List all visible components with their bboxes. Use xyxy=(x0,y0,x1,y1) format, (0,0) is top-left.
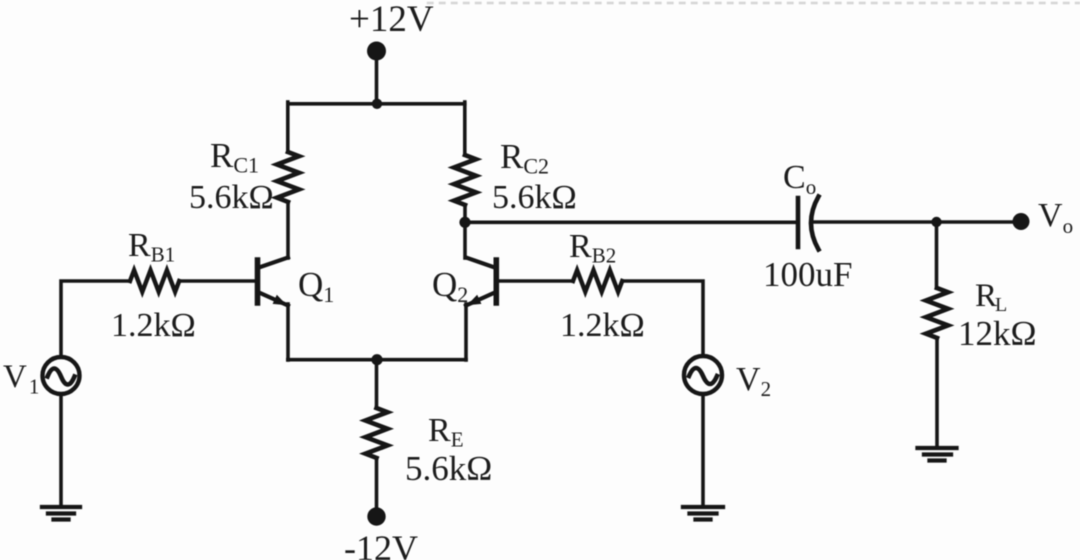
wire output node to Q2 collector xyxy=(463,222,467,258)
wire V1 riser to base xyxy=(61,281,130,357)
svg-text:RE: RE xyxy=(428,412,464,452)
svg-text:-12V: -12V xyxy=(344,528,418,560)
wire RB1 to Q1 base xyxy=(179,279,255,283)
wire V2 to ground xyxy=(701,394,705,507)
svg-text:RB1: RB1 xyxy=(128,227,175,267)
svg-text:V2: V2 xyxy=(736,361,771,401)
svg-text:RL: RL xyxy=(975,278,1007,316)
svg-text:V1: V1 xyxy=(3,359,39,399)
scan artifact dashed line xyxy=(428,2,1080,4)
capacitor Co xyxy=(798,197,819,250)
node +12V terminal dot xyxy=(367,42,386,61)
svg-text:Co: Co xyxy=(783,159,816,199)
wire +12V to top rail xyxy=(375,51,379,104)
svg-text:Vo: Vo xyxy=(1038,197,1073,238)
svg-text:Q1: Q1 xyxy=(298,265,334,307)
ground V2 xyxy=(683,507,723,520)
wire Q2 base to RB2 xyxy=(497,279,573,283)
svg-text:Q2: Q2 xyxy=(432,265,468,307)
transistor Q1 xyxy=(258,258,289,361)
source V2 xyxy=(684,356,722,394)
wire RC1 to Q1 collector xyxy=(286,202,290,258)
svg-text:100uF: 100uF xyxy=(763,255,852,294)
wire emitter to RE xyxy=(375,360,379,408)
svg-text:12kΩ: 12kΩ xyxy=(958,314,1037,353)
resistor RC2 xyxy=(454,155,476,205)
svg-text:5.6kΩ: 5.6kΩ xyxy=(405,449,492,488)
resistor RE xyxy=(366,408,388,458)
node Vo terminal dot xyxy=(1013,213,1030,230)
wire top rail xyxy=(288,102,465,106)
resistor RB1 xyxy=(130,270,179,292)
svg-text:RC1: RC1 xyxy=(210,136,259,178)
resistor RB2 xyxy=(573,270,622,292)
resistor RL xyxy=(926,288,948,338)
source V1 xyxy=(43,357,80,394)
svg-text:1.2kΩ: 1.2kΩ xyxy=(111,307,196,344)
node junction top rail xyxy=(372,99,382,109)
wire emitter rail xyxy=(288,358,466,362)
ground V1 xyxy=(42,507,80,520)
svg-text:RC2: RC2 xyxy=(500,137,549,179)
wire capacitor to Vo xyxy=(812,220,1021,224)
svg-text:+12V: +12V xyxy=(349,0,434,40)
svg-text:RB2: RB2 xyxy=(569,228,616,268)
resistor RC1 xyxy=(277,152,299,202)
svg-text:1.2kΩ: 1.2kΩ xyxy=(560,307,645,344)
wire RC2 to output node xyxy=(463,205,467,222)
svg-text:5.6kΩ: 5.6kΩ xyxy=(492,179,577,216)
wire RL to ground xyxy=(935,338,939,448)
ground RL xyxy=(918,448,957,461)
wire RB2 to V2 xyxy=(622,281,703,355)
svg-text:5.6kΩ: 5.6kΩ xyxy=(189,179,274,216)
wire junction to RL xyxy=(935,222,939,288)
node output junction xyxy=(459,217,470,228)
wire rail to RC1 xyxy=(286,102,290,152)
wire rail to RC2 xyxy=(463,102,467,155)
node emitter junction xyxy=(371,354,382,365)
node RL junction xyxy=(931,217,941,227)
wire RE to -12V xyxy=(375,458,379,516)
wire output to capacitor xyxy=(465,221,798,225)
wire V1 to ground xyxy=(59,394,63,507)
transistor Q2 xyxy=(466,258,496,361)
node -12V terminal dot xyxy=(367,507,385,525)
